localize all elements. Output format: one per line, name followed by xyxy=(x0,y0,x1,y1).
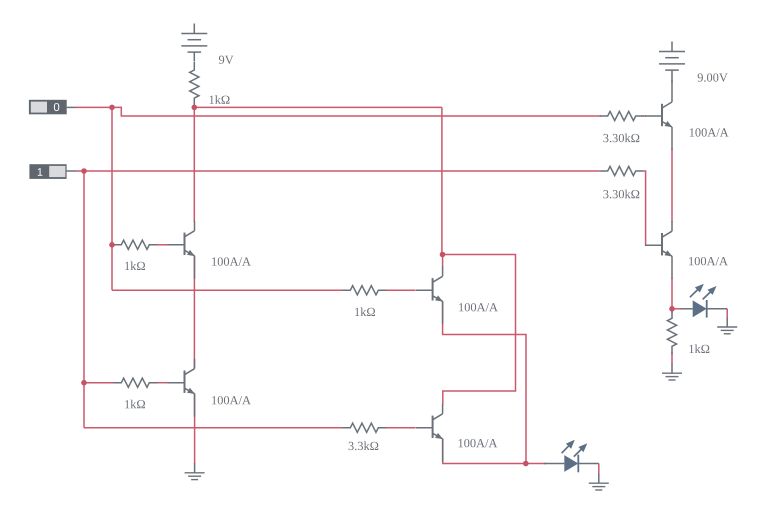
transistor Q5 100A/A xyxy=(645,80,672,150)
wire Q3 emitter to node G xyxy=(443,301,526,463)
transistor Q4 100A/A xyxy=(416,404,443,462)
LED2 indicator xyxy=(681,300,728,318)
wire Q5 emitter to Q6 collector xyxy=(671,149,673,223)
resistor R4 1k ohm xyxy=(342,286,386,295)
node E junction (collector tie) xyxy=(440,252,446,258)
wire LED1 cathode to ground xyxy=(598,464,600,475)
LED2 light arrow 2 xyxy=(703,286,717,299)
node C junction (switch 1 net) xyxy=(81,168,87,174)
node F junction (R3 tap) xyxy=(81,380,87,386)
label V1 9V xyxy=(219,56,234,64)
wire switch 1 to resistor R7 xyxy=(76,170,600,172)
wire node B down to Q1 collector xyxy=(193,107,195,222)
wire Q2 emitter to ground xyxy=(194,394,196,465)
label R8 1k ohm xyxy=(689,344,709,353)
switch SW1 input 1 xyxy=(29,164,76,179)
label R2 1k ohm xyxy=(125,261,145,270)
resistor R6 3.30k ohm xyxy=(600,111,644,120)
switch SW0 input 0 xyxy=(29,100,76,115)
wire Q1 emitter to Q2 collector xyxy=(193,256,195,369)
label R6 3.30k ohm xyxy=(603,134,639,143)
wire corner to resistor R5 xyxy=(84,427,415,429)
LED2 light arrow 1 xyxy=(690,284,704,298)
ground for LED1 xyxy=(589,474,609,490)
LED1 light arrow 2 xyxy=(574,443,588,457)
label R4 1k ohm xyxy=(355,307,375,316)
node H junction (Q6 emitter, LED2, R8) xyxy=(669,306,675,312)
wire node F to resistor R3 xyxy=(84,382,168,384)
battery V2 9.00V xyxy=(659,42,685,80)
wire node H to LED2 xyxy=(672,308,681,310)
LED1 light arrow 1 xyxy=(562,440,575,454)
label Q3 100A/A xyxy=(459,303,498,311)
wire node A jog to resistor R6 (switch-0 net) xyxy=(112,107,646,116)
label Q2 100A/A xyxy=(212,396,251,404)
transistor Q2 100A/A xyxy=(168,359,195,417)
ground for R8 xyxy=(662,364,682,380)
wire node E to Q4 collector xyxy=(443,255,516,405)
resistor R1 1k ohm pull-up xyxy=(190,62,199,106)
wire resistor R7 to Q6 base xyxy=(644,171,648,245)
label R5 3.3k ohm xyxy=(349,441,379,450)
label R3 1k ohm xyxy=(125,400,145,409)
battery V1 9V xyxy=(181,24,207,62)
resistor R5 3.3k ohm xyxy=(342,423,386,432)
ground for Q2 emitter xyxy=(185,463,205,479)
node A junction (switch 0 net) xyxy=(109,105,115,111)
wire node D to resistor R4 xyxy=(112,289,415,291)
label Q1 100A/A xyxy=(212,257,251,265)
node D junction (R2 tap) xyxy=(109,242,115,248)
resistor R8 1k ohm xyxy=(667,310,676,354)
ground for LED2 xyxy=(717,318,737,334)
label V2 9.00V xyxy=(698,73,728,81)
resistor R3 1k ohm xyxy=(113,378,157,387)
transistor Q1 100A/A xyxy=(168,221,195,279)
wire node C down to corner xyxy=(83,171,85,428)
label Q5 100A/A xyxy=(690,128,729,136)
wire Q4 emitter to node G xyxy=(443,439,526,464)
node G junction (emitter tie to LED1) xyxy=(523,461,529,467)
label Q6 100A/A xyxy=(689,257,728,265)
resistor R7 3.30k ohm xyxy=(600,166,644,175)
wire resistor R8 to ground xyxy=(671,352,673,365)
transistor Q3 100A/A xyxy=(416,266,443,324)
wire node E to Q3 collector xyxy=(442,255,444,268)
resistor R2 1k ohm xyxy=(113,240,157,249)
wire corner down to node E xyxy=(441,107,443,254)
wire Q6 emitter to node H xyxy=(671,278,673,309)
wire battery V2 to Q5 collector xyxy=(671,79,673,84)
wire node B to corner (pull-up net) xyxy=(194,106,442,108)
wire node G to LED1 xyxy=(526,463,546,465)
label R7 3.30k ohm xyxy=(603,190,639,199)
wire switch 0 to node A xyxy=(76,106,113,108)
wire LED2 cathode to ground xyxy=(726,309,728,319)
LED1 indicator xyxy=(544,455,599,473)
label Q4 100A/A xyxy=(459,439,498,447)
label R1 1k ohm xyxy=(210,95,230,104)
wire node A down to node D xyxy=(111,107,113,290)
transistor Q6 100A/A xyxy=(645,221,672,279)
wire node H to resistor R8 xyxy=(671,309,673,313)
node B junction (pull-up net) xyxy=(192,105,198,111)
wire node D branch to resistor R2 xyxy=(112,244,168,246)
